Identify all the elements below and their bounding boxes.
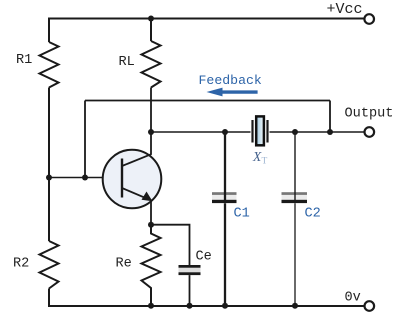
node crystal/C2 junction <box>292 129 298 135</box>
wire RL bottom / collector lead <box>150 88 152 155</box>
node feedback/base junction <box>82 175 88 181</box>
node Ce/rail junction <box>187 303 193 309</box>
feedback arrow <box>207 88 258 97</box>
wire R2 bottom lead <box>48 289 50 307</box>
svg-text:Feedback: Feedback <box>199 73 262 88</box>
node collector/crystal junction <box>148 129 154 135</box>
wire +Vcc top rail <box>49 18 364 20</box>
svg-text:Re: Re <box>116 257 132 272</box>
node divider/base junction <box>46 175 52 181</box>
capacitor Ce <box>179 265 201 275</box>
node emitter junction <box>148 222 154 228</box>
capacitor C1 <box>212 132 237 306</box>
resistor RL <box>142 41 161 88</box>
wire crystal to output <box>270 131 365 133</box>
resistor Re <box>142 225 161 306</box>
terminal 0v <box>365 301 375 311</box>
svg-text:R1: R1 <box>16 53 32 68</box>
wire 0v bottom rail <box>48 305 364 307</box>
wire base <box>49 177 122 179</box>
node Re/rail junction <box>148 303 154 309</box>
wire feedback left drop <box>84 101 86 178</box>
svg-text:Ce: Ce <box>196 250 212 265</box>
wire feedback top <box>85 100 330 102</box>
svg-text:T: T <box>262 157 268 167</box>
svg-text:Output: Output <box>345 107 394 122</box>
svg-text:C1: C1 <box>234 207 250 222</box>
svg-text:X: X <box>252 149 262 164</box>
crystal XT <box>253 116 268 145</box>
wire collector to crystal <box>151 131 251 133</box>
terminal +Vcc <box>364 14 374 24</box>
wire emitter vertical <box>150 201 152 225</box>
node output/feedback junction <box>327 129 333 135</box>
node crystal/C1 junction <box>222 129 228 135</box>
resistor R2 <box>40 241 59 289</box>
wire feedback right drop <box>329 101 331 133</box>
node C2/rail junction <box>292 303 298 309</box>
wire Ce bottom lead <box>189 275 191 306</box>
node C1/rail junction <box>222 303 228 309</box>
svg-text:RL: RL <box>119 55 135 70</box>
svg-text:+Vcc: +Vcc <box>327 1 363 18</box>
svg-text:R2: R2 <box>13 257 29 272</box>
svg-text:C2: C2 <box>305 207 321 222</box>
wire R1 top lead <box>48 18 50 43</box>
node RL/Vcc junction <box>148 16 154 22</box>
wire R1-R2 middle vertical <box>48 88 50 242</box>
terminal Output <box>365 127 375 137</box>
wire emitter to Ce <box>151 225 190 265</box>
resistor R1 <box>40 42 59 88</box>
capacitor C2 <box>282 132 308 306</box>
svg-text:0v: 0v <box>345 291 361 306</box>
transistor Q1 <box>103 150 162 209</box>
wire RL top lead <box>150 19 152 42</box>
